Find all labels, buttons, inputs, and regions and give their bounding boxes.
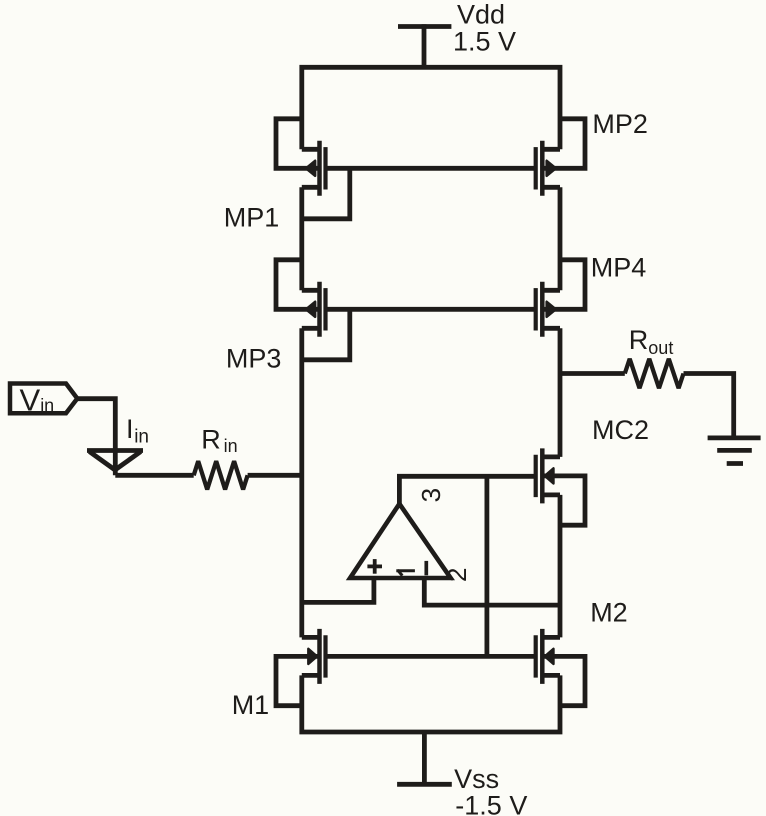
svg-text:I: I: [126, 414, 134, 444]
wire MP4 drain down to MC2 drain: [558, 328, 563, 457]
wire MP3 gate to MP4 gate: [326, 307, 536, 312]
transistor MP1 bulk lead and loop: [276, 119, 320, 169]
wire Rout to ground: [684, 374, 734, 438]
svg-text:MC2: MC2: [592, 415, 649, 445]
Vss stem wire: [422, 732, 427, 786]
transistor MP3 bottom stub: [302, 326, 320, 331]
svg-text:M2: M2: [590, 598, 628, 628]
wire op-amp minus input to M2 drain node: [424, 578, 560, 605]
svg-text:M1: M1: [232, 690, 270, 720]
transistor M1 bulk arrow: [308, 649, 317, 664]
svg-text:3: 3: [416, 488, 446, 502]
svg-text:MP2: MP2: [592, 109, 648, 139]
wire MP3 drain down left rail to M1 drain: [299, 328, 304, 637]
wire M1 gate to M2 gate: [326, 654, 536, 659]
wire MP1 gate-drain diode loop: [302, 168, 350, 219]
transistor M2 bottom stub: [542, 673, 560, 678]
transistor M2 bulk lead and loop: [542, 656, 585, 705]
transistor M2 channel bar: [540, 629, 545, 684]
wire to Rin: [115, 473, 193, 478]
transistor MC2 channel bar: [540, 448, 545, 503]
transistor MP4 channel bar: [540, 282, 545, 337]
transistor M1 channel bar: [317, 629, 322, 684]
transistor MP1 bottom stub: [302, 185, 320, 190]
transistor M2 bulk arrow: [545, 649, 554, 664]
transistor M1 bulk lead and loop: [276, 656, 320, 705]
wire MP1 drain to MP3 source: [299, 187, 304, 290]
wire op-amp output down to M1 M2 gates: [484, 476, 489, 656]
wire op-amp plus input to input node: [302, 578, 374, 602]
wire op-amp output pin 3 to MC2 gate: [399, 476, 535, 504]
svg-text:V: V: [20, 383, 41, 418]
source flag Vin: [10, 384, 77, 414]
transistor MP2 bulk lead and loop: [542, 119, 585, 169]
transistor MP3 bulk lead and loop: [276, 260, 320, 310]
transistor MP1 top stub: [302, 147, 320, 152]
svg-text:out: out: [648, 338, 673, 358]
svg-text:R: R: [201, 424, 221, 454]
op-amp plus input mark: [367, 565, 382, 569]
transistor MC2 bottom stub: [542, 492, 560, 497]
op-amp pin 1 label: [396, 569, 415, 572]
transistor MP2 top stub: [542, 147, 560, 152]
node output wire to Rout: [560, 371, 625, 376]
transistor M2 gate bar: [534, 635, 538, 677]
transistor MP4 bulk arrow: [547, 302, 556, 317]
transistor M1 top stub: [302, 635, 320, 640]
top rail wire Vdd node: [302, 67, 560, 149]
transistor MP4 top stub: [542, 288, 560, 293]
transistor MP3 bulk arrow: [306, 302, 315, 317]
op-amp U1 triangle: [350, 504, 451, 578]
transistor MC2 top stub: [542, 454, 560, 459]
transistor MP3 top stub: [302, 288, 320, 293]
transistor MP3 gate bar: [323, 288, 327, 330]
transistor MP2 bulk arrow: [547, 161, 556, 176]
Vss supply bar: [397, 782, 452, 787]
transistor MC2 bulk arrow: [545, 468, 554, 483]
current arrow Iin: [87, 448, 143, 453]
resistor Rout: [625, 359, 684, 388]
wire Vin to current arrow: [77, 399, 115, 476]
ground symbol: [708, 435, 761, 440]
bottom rail wire Vss node: [302, 675, 560, 732]
svg-text:in: in: [40, 396, 54, 416]
transistor MP2 channel bar: [540, 141, 545, 196]
wire MP1 gate to MP2 gate: [326, 166, 536, 171]
transistor M2 top stub: [542, 635, 560, 640]
transistor M1 bottom stub: [302, 673, 320, 678]
transistor MP2 bottom stub: [542, 185, 560, 190]
svg-text:2: 2: [442, 568, 472, 582]
transistor MC2 gate bar: [534, 455, 538, 497]
transistor MP1 gate bar: [323, 147, 327, 189]
transistor MP1 bulk arrow: [306, 161, 315, 176]
transistor MP4 bulk lead and loop: [542, 260, 585, 310]
svg-text:MP1: MP1: [224, 203, 280, 233]
transistor MP4 gate bar: [534, 288, 538, 330]
transistor MP4 bottom stub: [542, 326, 560, 331]
svg-text:MP3: MP3: [226, 344, 282, 374]
transistor MC2 bulk lead and loop: [542, 476, 585, 525]
svg-text:in: in: [134, 426, 149, 447]
op-amp minus input mark: [424, 561, 428, 575]
wire Rin to input node: [248, 473, 302, 478]
Vdd supply bar: [398, 24, 451, 29]
wire MC2 source down to M2 drain: [558, 495, 563, 638]
wire MP3 gate-drain diode loop: [302, 309, 350, 360]
transistor MP3 channel bar: [317, 282, 322, 337]
svg-text:Vdd: Vdd: [457, 0, 505, 29]
transistor MP1 channel bar: [317, 141, 322, 196]
wire MP2 drain to MP4 source: [558, 187, 563, 290]
svg-text:R: R: [629, 325, 649, 355]
transistor M1 gate bar: [323, 635, 327, 677]
svg-text:-1.5 V: -1.5 V: [455, 790, 527, 816]
svg-text:in: in: [224, 436, 238, 456]
svg-text:MP4: MP4: [591, 253, 647, 283]
svg-text:1.5 V: 1.5 V: [453, 27, 516, 57]
Vdd stem wire: [422, 24, 427, 67]
transistor MP2 gate bar: [534, 147, 538, 189]
resistor Rin: [194, 461, 248, 489]
